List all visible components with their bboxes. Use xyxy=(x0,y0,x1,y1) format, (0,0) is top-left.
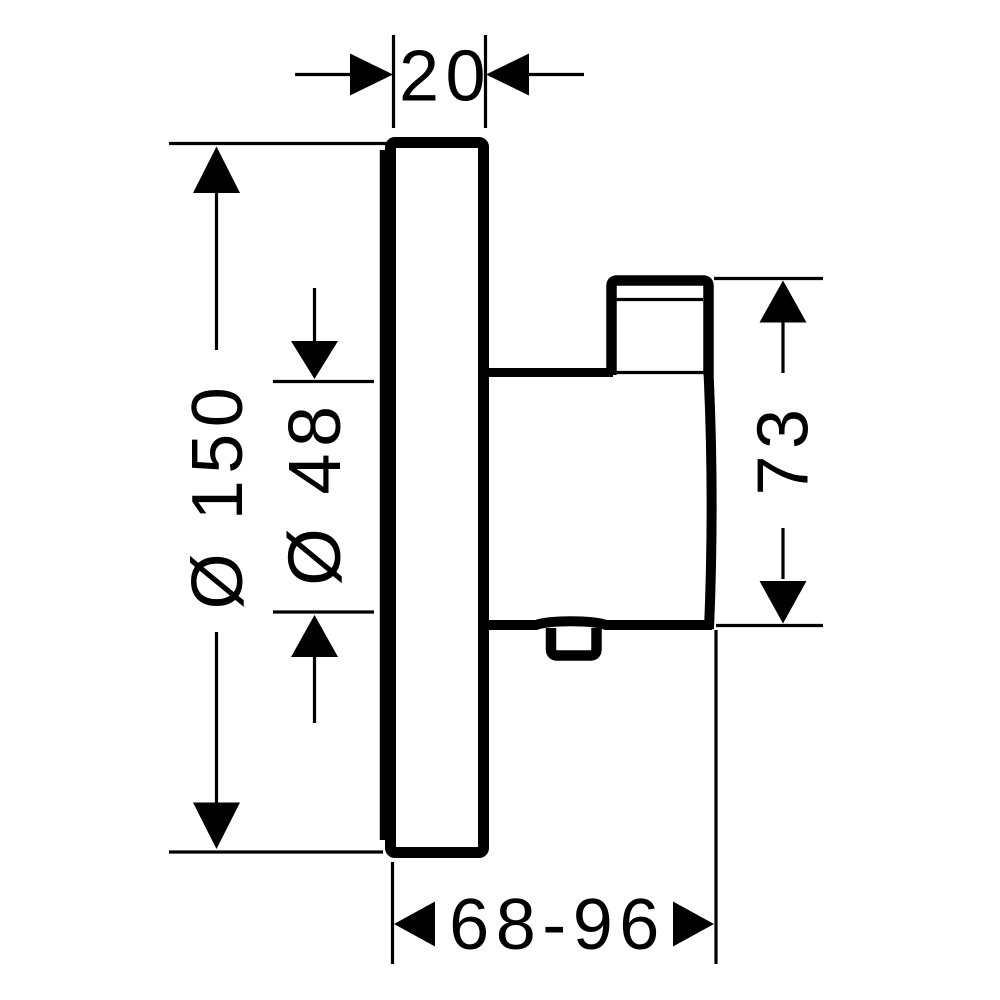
svg-text:73: 73 xyxy=(744,402,824,495)
svg-text:Ø 48: Ø 48 xyxy=(273,399,356,585)
svg-text:20: 20 xyxy=(399,37,492,117)
svg-text:68-96: 68-96 xyxy=(449,885,666,965)
svg-text:Ø 150: Ø 150 xyxy=(178,381,258,610)
